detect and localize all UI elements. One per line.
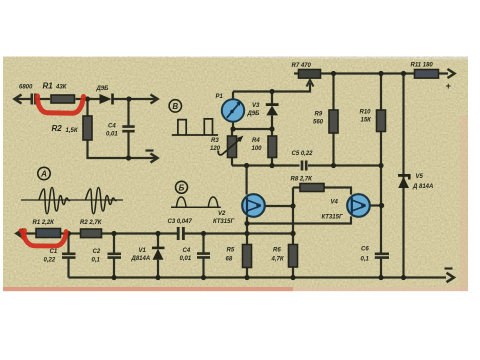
svg-text:+: + bbox=[446, 81, 452, 91]
svg-text:R9: R9 bbox=[315, 112, 323, 118]
arrow left (lower input) bbox=[17, 229, 24, 238]
svg-text:43К: 43К bbox=[55, 85, 68, 91]
svg-text:V5: V5 bbox=[416, 174, 424, 180]
svg-text:V1: V1 bbox=[139, 248, 147, 254]
wire: R3 top riser bbox=[231, 129, 233, 136]
junction V4 collector / R10 column bbox=[379, 203, 384, 208]
svg-text:V3: V3 bbox=[252, 103, 260, 109]
junction ground rail / R5 bbox=[244, 275, 249, 280]
svg-text:R11 180: R11 180 bbox=[411, 63, 434, 69]
svg-text:Д9Б: Д9Б bbox=[96, 86, 110, 92]
wire: ground rail y=277.5 bbox=[69, 276, 447, 278]
arrow right (upper probe output to voltmeter) bbox=[151, 95, 158, 104]
wire: R2 upper leg down and bottom wire y=158 bbox=[88, 99, 156, 158]
node B circle (В) bbox=[169, 100, 181, 112]
junction upper wire / C4 upper top bbox=[126, 96, 131, 101]
svg-text:0,1: 0,1 bbox=[92, 258, 101, 264]
wire: V2 emitter down to y=223.5 and R5 bbox=[246, 216, 248, 277]
svg-text:С4: С4 bbox=[108, 124, 116, 130]
junction C5 wire / R4 bottom bbox=[269, 163, 274, 168]
wire: emitter link y=223.5 to V4 bbox=[247, 216, 351, 223]
svg-text:560: 560 bbox=[313, 120, 324, 126]
capacitor 6800 plates bbox=[32, 94, 36, 105]
junction input wire end / R6 column bbox=[290, 231, 295, 236]
pink scan edge right bbox=[460, 115, 468, 291]
diode V1 leg bbox=[157, 234, 159, 278]
waveform A damped sine bbox=[21, 188, 123, 214]
svg-text:КТ315Г: КТ315Г bbox=[322, 215, 343, 221]
svg-text:R3: R3 bbox=[211, 138, 219, 144]
svg-text:КТ315Г: КТ315Г bbox=[213, 219, 234, 225]
arrow up (R7 wiper) bbox=[307, 80, 314, 87]
capacitor C4 upper leg and plates bbox=[127, 99, 129, 158]
junction ground rail / C6 column bbox=[378, 275, 383, 280]
svg-text:68: 68 bbox=[226, 257, 233, 263]
junction C5 wire / R10 column bbox=[378, 163, 383, 168]
waveform Б half-sine bumps bbox=[171, 197, 221, 207]
svg-text:R2: R2 bbox=[52, 124, 63, 133]
junction top rail / V5 bbox=[401, 71, 406, 76]
resistor R8 2.7K bbox=[300, 184, 324, 192]
arrow right (top rail +) bbox=[448, 69, 455, 78]
resistor R5 bbox=[243, 245, 252, 268]
wire: P1 top riser bbox=[232, 92, 234, 100]
junction ground rail / V1 bbox=[155, 275, 160, 280]
junction C5 wire / V2 collector bbox=[244, 163, 249, 168]
wire: R7 left stub bbox=[294, 72, 299, 74]
junction upper bottom wire / C4 upper bottom bbox=[126, 155, 131, 160]
diode V3 D9B bbox=[266, 103, 279, 115]
svg-text:V2: V2 bbox=[218, 211, 226, 217]
junction V3 bottom / R4 top bbox=[269, 126, 274, 131]
labels middle bbox=[210, 94, 343, 225]
junction ground rail / C4 lower bbox=[201, 275, 206, 280]
wire: V2 collector riser bbox=[246, 166, 248, 195]
junction input wire / C4 lower bbox=[201, 231, 206, 236]
wire: R9 risers bbox=[332, 74, 334, 166]
junction upper wire / R2 upper bbox=[85, 96, 90, 101]
resistor R6 bbox=[289, 245, 298, 268]
resistor R2 lower 2.7K bbox=[81, 229, 102, 238]
diode V3 vertical leg bbox=[271, 92, 273, 137]
junction ground rail / R6 bbox=[290, 275, 295, 280]
junction P1 wire / V3 top bbox=[269, 89, 274, 94]
resistor R2 upper 1.5K bbox=[83, 116, 92, 140]
wire: R8 left stub bbox=[293, 186, 300, 188]
resistor R10 15K bbox=[377, 110, 386, 132]
transistor V2 KT315G bbox=[242, 194, 265, 217]
svg-text:R7 470: R7 470 bbox=[292, 63, 312, 69]
capacitor C3 plates bbox=[178, 227, 183, 240]
svg-text:С3 0,047: С3 0,047 bbox=[168, 219, 193, 225]
svg-text:6800: 6800 bbox=[19, 85, 33, 91]
capacitor C4 lower leg and plates bbox=[202, 234, 204, 278]
svg-text:R2 2,7К: R2 2,7К bbox=[80, 220, 103, 226]
arrow right (bottom of upper probe) bbox=[151, 154, 158, 163]
junction input wire / V1 bbox=[155, 231, 160, 236]
resistor R11 180 bbox=[415, 70, 439, 79]
pink scan edge bottom bbox=[3, 287, 293, 291]
junction V2 emitter / link to V4 bbox=[244, 221, 249, 226]
resistor R3 trimmer bbox=[228, 136, 237, 158]
waveform B square pulses bbox=[172, 119, 218, 135]
svg-text:С6: С6 bbox=[361, 247, 369, 253]
svg-text:100: 100 bbox=[252, 146, 263, 152]
junction ground rail / C2 bbox=[111, 275, 116, 280]
junction V2 base wire / R6 column bbox=[290, 203, 295, 208]
diode V1 D814A bbox=[152, 247, 165, 260]
svg-text:А: А bbox=[40, 170, 47, 179]
labels lower left bbox=[33, 219, 285, 264]
svg-text:V4: V4 bbox=[331, 200, 339, 206]
capacitor C2 leg and plates bbox=[113, 234, 115, 278]
svg-text:0,22: 0,22 bbox=[44, 258, 56, 264]
svg-text:4,7К: 4,7К bbox=[271, 257, 285, 263]
svg-text:0,01: 0,01 bbox=[106, 132, 118, 138]
svg-text:R8 2,7К: R8 2,7К bbox=[291, 177, 314, 183]
junction P1 bottom / R3 top bbox=[230, 126, 235, 131]
node A circle bbox=[38, 167, 50, 179]
wire: V2 base out to x=293 bbox=[263, 205, 294, 207]
svg-text:0,1: 0,1 bbox=[361, 257, 370, 263]
junction ground rail / V5 bbox=[401, 275, 406, 280]
minus sign lower right bbox=[445, 267, 453, 269]
trimmer arrow R3 bbox=[218, 136, 243, 155]
wire: link y=129 P1 to V3/R4 bbox=[233, 128, 272, 130]
wire: V4 collector out to x=381 bbox=[367, 204, 382, 206]
svg-text:1,5К: 1,5К bbox=[66, 128, 79, 134]
wire: R3 bottom to y=165.5 bbox=[231, 158, 233, 166]
svg-text:120: 120 bbox=[210, 146, 221, 152]
red blob at lower arrow bbox=[21, 231, 24, 238]
svg-text:С1: С1 bbox=[50, 249, 58, 255]
svg-text:Д814А: Д814А bbox=[131, 256, 151, 262]
wire: top rail y=73.5 bbox=[321, 72, 449, 74]
svg-text:R6: R6 bbox=[273, 248, 281, 254]
wire: y=91.5 line P1/V3/R7 wiper bbox=[233, 83, 310, 92]
junction top rail / R9 bbox=[331, 71, 336, 76]
svg-text:0,01: 0,01 bbox=[180, 256, 192, 262]
svg-text:В: В bbox=[172, 102, 178, 111]
wire: lower input line y=233.5 bbox=[17, 232, 293, 234]
arrow left (upper probe input) bbox=[15, 95, 22, 104]
svg-text:R5: R5 bbox=[227, 248, 235, 254]
svg-text:R4: R4 bbox=[252, 138, 260, 144]
svg-text:С4: С4 bbox=[183, 248, 191, 254]
wire: R10 riser and long vertical x=381 bbox=[380, 74, 382, 278]
svg-text:Д9Б: Д9Б bbox=[247, 111, 261, 117]
svg-text:Р1: Р1 bbox=[216, 94, 224, 100]
svg-text:R1: R1 bbox=[43, 82, 54, 91]
wire: R8 right to V4 top bbox=[324, 188, 351, 195]
resistor R7 470 trimmer bbox=[299, 70, 321, 79]
svg-text:Д 814А: Д 814А bbox=[412, 184, 433, 190]
wire: y=165.5 line with C5 gap bbox=[232, 164, 381, 166]
diode V5 D814A zener bbox=[398, 174, 411, 188]
wire: V5 vertical x=403.5 bbox=[402, 74, 404, 278]
resistor R1 lower 2.2K bbox=[36, 229, 61, 238]
wire: upper probe top line y=99 bbox=[15, 98, 155, 100]
junction C5 wire / R9 bottom bbox=[331, 163, 336, 168]
svg-text:15К: 15К bbox=[361, 118, 373, 124]
labels right bbox=[292, 63, 452, 263]
junction input wire / C2 bbox=[111, 231, 116, 236]
junction top rail / R10 bbox=[378, 71, 383, 76]
arrow right (ground rail end) bbox=[447, 273, 454, 282]
svg-text:Б: Б bbox=[179, 183, 185, 192]
minus sign upper probe bbox=[146, 149, 154, 151]
capacitor C5 plates bbox=[302, 161, 306, 171]
svg-text:С2: С2 bbox=[93, 249, 101, 255]
svg-text:R10: R10 bbox=[360, 110, 372, 116]
diode D9B upper bbox=[100, 94, 114, 105]
svg-text:С5 0,22: С5 0,22 bbox=[292, 151, 314, 157]
transistor V4 KT315G bbox=[347, 194, 370, 217]
capacitor C6 plates bbox=[375, 254, 389, 258]
wire: R4 bottom to y=165.5 bbox=[271, 158, 273, 166]
node Б circle bbox=[176, 181, 188, 193]
capacitor C1 leg and plates bbox=[67, 234, 69, 278]
junction input wire / C1 bbox=[66, 231, 71, 236]
wire: vertical x=293 R8-left / base / input node / R6 bbox=[292, 188, 294, 278]
meter P1 bbox=[222, 99, 244, 121]
resistor R9 560 bbox=[329, 110, 338, 133]
junction input wire / V2 emitter line bbox=[244, 231, 249, 236]
resistor R4 bbox=[268, 136, 277, 158]
svg-text:R1 2,2К: R1 2,2К bbox=[33, 220, 56, 226]
red marker around R1 lower bbox=[24, 231, 66, 247]
wire: P1 bottom riser bbox=[232, 122, 234, 129]
labels upper probe bbox=[19, 82, 118, 138]
resistor R1 upper 43K bbox=[51, 95, 75, 103]
red marker around R1 upper bbox=[37, 96, 83, 113]
